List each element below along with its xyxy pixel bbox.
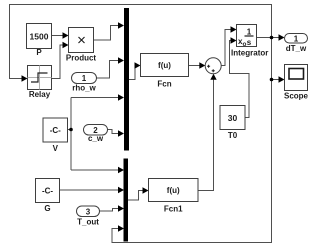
wire rho_w to Mux input 2 bbox=[97, 61, 119, 79]
svg-text:1500: 1500 bbox=[30, 32, 49, 42]
integrator block Integrator bbox=[231, 25, 268, 58]
wire Integrator to dT_w bbox=[257, 37, 280, 39]
arrowhead into Sum left bbox=[199, 62, 205, 68]
wire Mux1b to Fcn1 bbox=[128, 191, 143, 201]
constant block V bbox=[43, 118, 68, 153]
arrowhead into Mux input 3 bbox=[118, 94, 124, 100]
svg-text:Product: Product bbox=[66, 54, 97, 63]
arrowhead into Fcn bbox=[135, 62, 141, 68]
svg-text:c_w: c_w bbox=[88, 134, 104, 143]
junction node at scope branch bbox=[270, 78, 274, 82]
svg-text:o: o bbox=[243, 41, 247, 48]
arrowhead into Sum bottom bbox=[210, 74, 216, 80]
constant block P (1500) bbox=[27, 24, 52, 58]
arrowhead into Product input 1 bbox=[63, 32, 69, 38]
svg-text:Relay: Relay bbox=[29, 90, 51, 99]
product block Product bbox=[66, 28, 97, 63]
svg-text:Fcn: Fcn bbox=[157, 80, 171, 89]
wire G to Mux1b input 2 bbox=[60, 189, 119, 191]
svg-text:f(u): f(u) bbox=[167, 186, 180, 195]
svg-text:T0: T0 bbox=[228, 131, 238, 140]
svg-text:Integrator: Integrator bbox=[231, 49, 268, 58]
svg-text:3: 3 bbox=[86, 208, 91, 217]
wire V to Mux1b input 1 bbox=[71, 169, 118, 171]
wire Product to Mux input 1 bbox=[94, 26, 119, 41]
outport 1 dT_w bbox=[285, 34, 308, 54]
svg-text:30: 30 bbox=[228, 113, 238, 123]
wire V trunk vertical bbox=[68, 98, 72, 171]
svg-text:G: G bbox=[44, 204, 50, 213]
svg-text:Scope: Scope bbox=[284, 92, 309, 101]
arrowhead into Mux1b input 2 bbox=[118, 187, 124, 193]
wire V to Mux input 3 bbox=[71, 97, 118, 99]
svg-text:Fcn1: Fcn1 bbox=[164, 205, 183, 214]
wire feedback bottom from trunk to Mux1b input 4 bbox=[112, 38, 272, 243]
wire T0 to Integrator x0 input bbox=[230, 41, 250, 118]
mux Mux bbox=[124, 8, 129, 151]
arrowhead into Mux input 1 bbox=[118, 22, 124, 28]
wire Fcn1 to Sum bottom input bbox=[198, 80, 214, 191]
svg-text:V: V bbox=[53, 144, 59, 153]
svg-text:s: s bbox=[247, 38, 252, 47]
junction node at V output bbox=[69, 128, 73, 132]
constant block T0 (30) bbox=[220, 106, 245, 141]
wire P to Product input 1 bbox=[52, 35, 63, 37]
arrowhead into Scope bbox=[279, 76, 285, 82]
arrowhead into Mux1b input 4 bbox=[118, 225, 124, 231]
svg-text:f(u): f(u) bbox=[158, 61, 171, 70]
relay block Relay bbox=[28, 66, 52, 100]
arrowhead into Relay bbox=[22, 75, 28, 81]
arrowhead into Integrator input 1 bbox=[231, 26, 237, 32]
wire feedback top from integrator output to Relay input bbox=[10, 5, 272, 79]
svg-text:dT_w: dT_w bbox=[286, 44, 307, 53]
arrowhead into Fcn1 bbox=[143, 187, 149, 193]
arrowhead into Mux input 4 bbox=[118, 130, 124, 136]
svg-text:P: P bbox=[36, 48, 42, 57]
arrowhead into Mux1b input 1 bbox=[118, 167, 124, 173]
constant block G bbox=[36, 179, 60, 214]
wire Mux to Fcn bbox=[129, 66, 136, 80]
inport 2 c_w bbox=[84, 125, 108, 144]
junction node at integrator output bbox=[270, 36, 274, 40]
mux Mux1b bbox=[124, 159, 129, 242]
fcn block Fcn bbox=[141, 54, 189, 89]
wire Relay to Product input 2 bbox=[52, 45, 63, 79]
wire T_out to Mux1b input 3 bbox=[100, 209, 119, 212]
arrowhead into Integrator x0 input bbox=[231, 37, 237, 43]
svg-text:1: 1 bbox=[247, 28, 252, 37]
svg-text:1: 1 bbox=[294, 34, 299, 43]
inport 3 T_out bbox=[77, 206, 100, 227]
inport 1 rho_w bbox=[72, 73, 97, 93]
svg-text:-C-: -C- bbox=[50, 126, 61, 135]
svg-text:T_out: T_out bbox=[77, 218, 99, 227]
arrowhead into dT_w bbox=[279, 34, 285, 40]
arrowhead into Mux input 2 bbox=[118, 57, 124, 63]
fcn block Fcn1 bbox=[149, 179, 199, 214]
arrowhead into Mux1b input 3 bbox=[118, 205, 124, 211]
scope block Scope bbox=[284, 65, 309, 101]
wire Fcn to Sum bbox=[189, 65, 201, 67]
svg-text:rho_w: rho_w bbox=[72, 84, 96, 93]
svg-text:-C-: -C- bbox=[42, 187, 53, 196]
wire c_w to Mux input 4 bbox=[108, 130, 119, 134]
svg-text:1: 1 bbox=[82, 74, 87, 83]
wire trunk to Scope bbox=[272, 79, 280, 81]
sum block bbox=[205, 58, 221, 74]
arrowhead into Product input 2 bbox=[63, 42, 69, 48]
wire Sum to Integrator input 1 bbox=[221, 30, 231, 66]
